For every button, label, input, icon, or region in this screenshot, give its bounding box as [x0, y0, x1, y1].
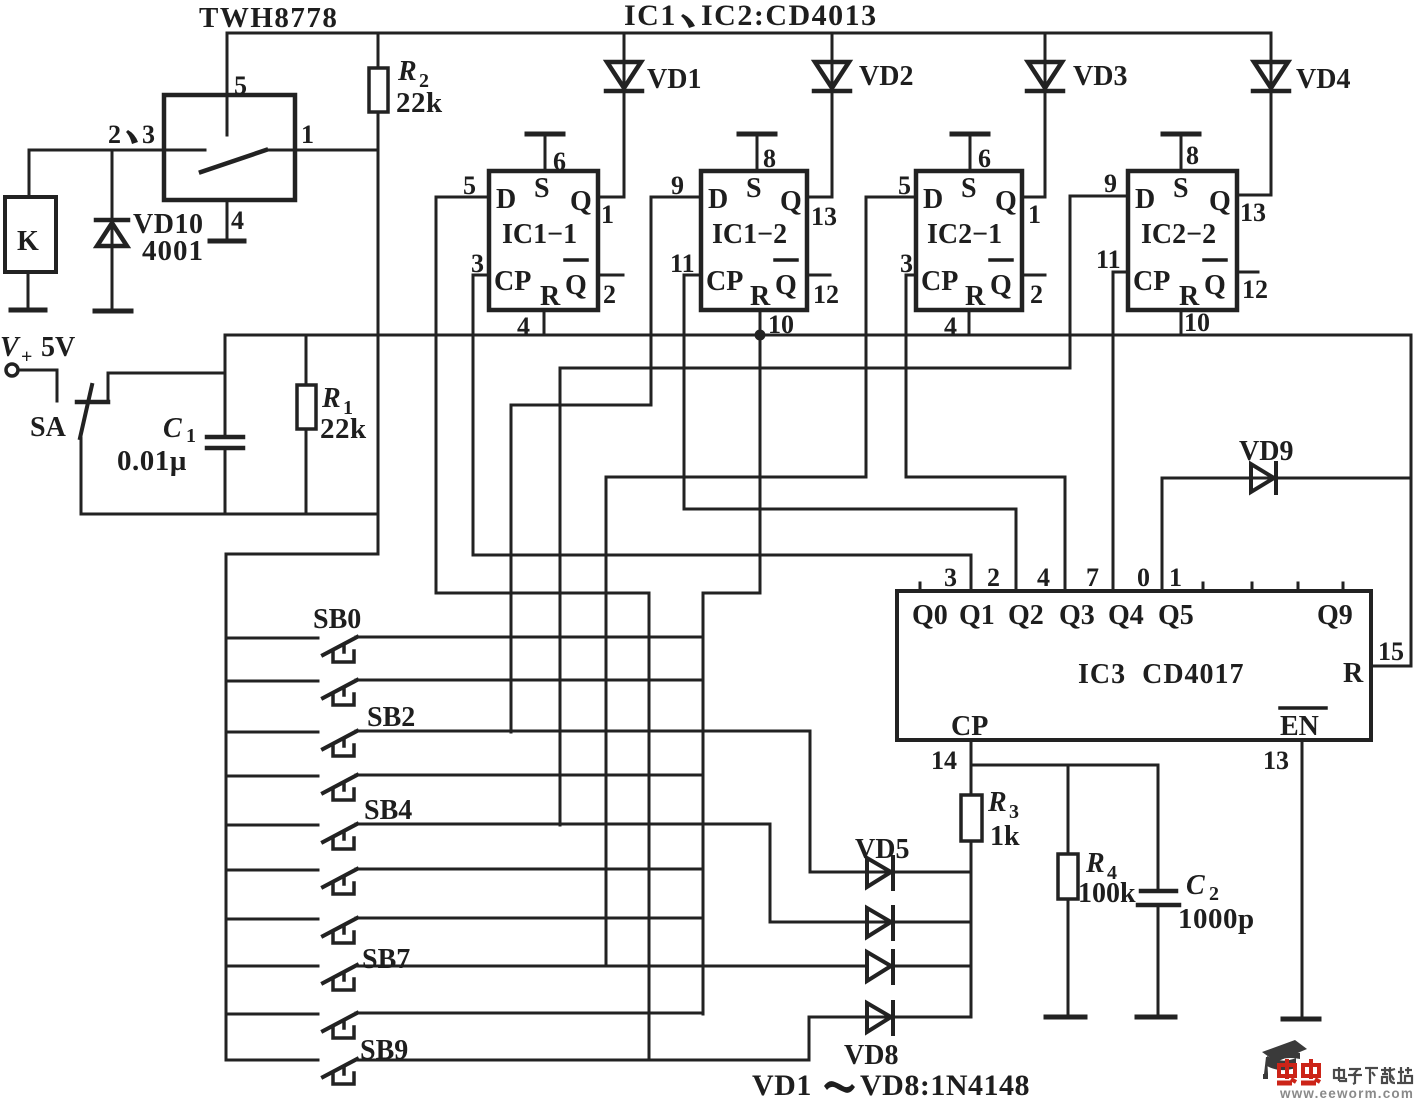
svg-text:Q2: Q2	[1008, 600, 1044, 631]
svg-text:IC1−2: IC1−2	[712, 219, 787, 250]
svg-text:4001: 4001	[142, 235, 204, 267]
svg-text:13: 13	[1240, 198, 1266, 227]
IC1-2 texts	[706, 173, 802, 312]
svg-text:C: C	[163, 413, 182, 444]
wire IC2-1 D net	[606, 197, 916, 966]
wire CP node to R4 C2	[971, 764, 1158, 767]
svg-text:VD8: VD8	[844, 1040, 898, 1071]
svg-text:14: 14	[931, 746, 957, 775]
svg-text:4: 4	[231, 206, 244, 235]
IC U1 TWH8778 box	[164, 95, 295, 200]
IC2-1 texts	[921, 173, 1017, 312]
ground under VD10	[95, 309, 131, 314]
svg-text:7: 7	[1086, 563, 1099, 592]
svg-text:100k: 100k	[1078, 878, 1136, 909]
switch SA contact	[77, 400, 108, 405]
capacitor C2	[1138, 765, 1179, 1016]
IC2-2 texts	[1133, 173, 1231, 312]
flip-flop IC2-2 box	[1128, 171, 1237, 310]
IC1-2 Qbar stub	[807, 274, 830, 277]
svg-text:8: 8	[1186, 141, 1199, 170]
pushbutton SB6	[226, 918, 703, 943]
svg-text:5: 5	[234, 71, 247, 100]
svg-text:IC3 CD4017: IC3 CD4017	[1078, 659, 1245, 690]
svg-text:1000p: 1000p	[1178, 903, 1255, 935]
svg-text:1: 1	[1028, 200, 1041, 229]
svg-text:VD9: VD9	[1239, 436, 1293, 467]
svg-text:10: 10	[1184, 308, 1210, 337]
wire IC2-2 D net	[560, 196, 1128, 825]
svg-text:Q: Q	[780, 186, 802, 217]
svg-text:D: D	[708, 184, 728, 215]
svg-text:22k: 22k	[396, 87, 443, 119]
pushbutton SB2	[226, 731, 810, 756]
IC3 EN label	[1280, 708, 1326, 742]
svg-text:TWH8778: TWH8778	[199, 2, 338, 34]
IC2-2 R pin stub	[1180, 310, 1183, 335]
svg-text:9: 9	[1104, 169, 1117, 198]
svg-text:11: 11	[1096, 245, 1121, 274]
ground under C2	[1137, 1015, 1175, 1020]
wire IC2-1 Q to VD3	[1022, 33, 1045, 197]
wire pins 2,3 input	[29, 149, 205, 152]
svg-text:IC1−1: IC1−1	[502, 219, 577, 250]
ground under K	[11, 308, 45, 313]
wire IC2-2 Q to VD4	[1237, 33, 1271, 195]
label V+ 5V	[0, 332, 75, 368]
wire V rail to button bus	[226, 554, 378, 1060]
svg-text:VD1: VD1	[647, 64, 701, 95]
wire pin 1 output	[266, 149, 378, 152]
svg-text:S: S	[746, 173, 762, 204]
diode VD8	[867, 1002, 893, 1034]
svg-text:S: S	[1173, 173, 1189, 204]
svg-text:Q: Q	[1209, 186, 1231, 217]
diode VD6	[867, 907, 893, 939]
svg-text:VD1: VD1	[752, 1069, 812, 1099]
svg-text:2: 2	[1209, 883, 1219, 905]
svg-text:VD2: VD2	[859, 61, 913, 92]
svg-text:R: R	[397, 56, 417, 87]
svg-text:Q: Q	[1204, 270, 1226, 301]
svg-text:2: 2	[108, 120, 121, 149]
diode VD1	[606, 62, 642, 91]
svg-text:3: 3	[1009, 801, 1019, 823]
ground pin 4	[210, 239, 244, 244]
IC3 pin number labels	[944, 563, 1182, 592]
svg-text:1: 1	[601, 200, 614, 229]
svg-text:R: R	[750, 281, 771, 312]
wire IC1-1 CP net to Q1	[473, 275, 971, 591]
svg-text:SB0: SB0	[313, 604, 361, 635]
resistor R3	[961, 795, 982, 841]
flip-flop IC1-2 box	[701, 171, 807, 310]
svg-text:CP: CP	[494, 266, 531, 297]
svg-text:S: S	[534, 173, 550, 204]
ground under EN	[1283, 1017, 1319, 1022]
svg-text:SA: SA	[30, 412, 67, 443]
svg-text:+: +	[21, 346, 32, 368]
svg-text:CP: CP	[1133, 266, 1170, 297]
wire IC2-2 CP net to Q4	[1113, 272, 1128, 591]
IC1-2 R pin stub	[759, 310, 762, 335]
wire VD cathode bus	[970, 841, 973, 1017]
IC2-1 Qbar stub	[1022, 274, 1045, 277]
ground under R4	[1046, 1015, 1085, 1020]
IC2-1 S pin	[952, 134, 988, 171]
watermark chongchong red text	[1277, 1059, 1320, 1083]
pushbutton SB7	[226, 965, 866, 990]
IC2-2 Qbar stub	[1237, 271, 1258, 274]
svg-text:Q: Q	[570, 186, 592, 217]
wire VD7 to bus	[893, 965, 971, 968]
wire IC1-2 CP net to Q2	[684, 275, 1016, 591]
wire IC1-2 D net	[511, 197, 701, 732]
svg-text:4: 4	[517, 312, 530, 341]
svg-text:3: 3	[142, 120, 155, 149]
IC3 top tick pins	[920, 583, 1343, 591]
svg-text:Q: Q	[995, 186, 1017, 217]
pushbutton SB3	[226, 775, 703, 800]
diode VD9 net	[1162, 478, 1411, 591]
svg-text:IC2−1: IC2−1	[927, 219, 1002, 250]
diode VD9	[1251, 463, 1276, 493]
switch blade inside TWH8778	[201, 150, 266, 172]
svg-text:SB9: SB9	[360, 1035, 408, 1066]
label VD1-VD8 1N4148	[752, 1069, 1030, 1099]
wire IC2-1 CP net to Q3	[906, 275, 1065, 591]
pushbutton SB1	[226, 680, 703, 705]
IC2-2 S pin	[1163, 134, 1199, 171]
svg-text:R: R	[1085, 848, 1105, 879]
IC1-2 S pin	[739, 134, 775, 171]
svg-text:S: S	[961, 173, 977, 204]
pushbutton SB8	[226, 1013, 701, 1038]
diode VD3	[1027, 62, 1063, 91]
svg-text:1: 1	[301, 120, 314, 149]
svg-text:R: R	[987, 787, 1007, 818]
IC3 output labels	[912, 600, 1353, 631]
wire SA to rail	[108, 373, 225, 402]
svg-text:Q1: Q1	[959, 600, 995, 631]
IC3 CD4017 box	[897, 591, 1371, 740]
svg-text:D: D	[923, 184, 943, 215]
wire reset bus	[225, 335, 1411, 666]
pushbutton SB0	[226, 637, 703, 662]
svg-text:www.eeworm.com: www.eeworm.com	[1279, 1086, 1414, 1099]
wire IC1-2 Q to VD2	[807, 33, 832, 197]
wire pin 4	[226, 200, 229, 240]
diode VD2	[814, 62, 850, 91]
svg-text:R: R	[965, 281, 986, 312]
svg-text:6: 6	[978, 144, 991, 173]
svg-text:8: 8	[763, 144, 776, 173]
wire SB2 to VD5	[810, 731, 971, 872]
label 2、3	[108, 120, 155, 149]
svg-text:VD3: VD3	[1073, 61, 1127, 92]
svg-text:4: 4	[1037, 563, 1050, 592]
svg-text:SB4: SB4	[364, 795, 412, 826]
svg-text:IC2−2: IC2−2	[1141, 219, 1216, 250]
wire IC1-1 D net	[436, 197, 649, 1060]
svg-text:10: 10	[768, 310, 794, 339]
wire K to ground	[27, 272, 30, 309]
svg-text:R: R	[1179, 281, 1200, 312]
resistor R4	[1058, 765, 1078, 1016]
wire top supply bus	[227, 32, 1271, 35]
diode VD10 wire	[111, 150, 114, 310]
wire IC1-1 Q to VD1	[598, 33, 624, 197]
svg-text:R: R	[540, 281, 561, 312]
node junction dot	[755, 330, 766, 341]
svg-text:4: 4	[944, 312, 957, 341]
svg-text:EN: EN	[1280, 711, 1319, 742]
svg-text:R: R	[321, 383, 341, 414]
svg-text:1: 1	[186, 425, 196, 447]
IC1-1 Qbar stub	[598, 274, 623, 277]
IC2-1 R pin stub	[968, 310, 971, 335]
svg-text:0.01µ: 0.01µ	[117, 445, 187, 477]
pushbutton SB9	[226, 1059, 809, 1084]
svg-text:Q: Q	[775, 270, 797, 301]
svg-text:13: 13	[1263, 746, 1289, 775]
svg-text:CP: CP	[706, 266, 743, 297]
svg-text:Q9: Q9	[1317, 600, 1353, 631]
watermark logo cap	[1262, 1040, 1307, 1079]
wire SB4 to VD6	[770, 824, 971, 922]
capacitor C1	[207, 335, 243, 514]
label IC1,IC2:CD4013	[624, 0, 878, 32]
wire K drop	[28, 150, 31, 197]
resistor R2	[369, 33, 388, 554]
wire CP pin 14	[970, 740, 973, 795]
svg-text:IC2:CD4013: IC2:CD4013	[701, 0, 878, 32]
svg-text:2: 2	[1030, 280, 1043, 309]
svg-text:Q5: Q5	[1158, 600, 1194, 631]
diode VD5	[867, 857, 893, 889]
svg-text:SB2: SB2	[367, 702, 415, 733]
svg-text:K: K	[17, 226, 39, 257]
svg-text:0: 0	[1137, 563, 1150, 592]
svg-text:1: 1	[1169, 563, 1182, 592]
svg-text:12: 12	[813, 280, 839, 309]
terminal V+	[6, 364, 18, 376]
svg-text:SB7: SB7	[362, 944, 410, 975]
watermark site name	[1334, 1067, 1412, 1084]
svg-text:Q0: Q0	[912, 600, 948, 631]
svg-text:Q: Q	[990, 270, 1012, 301]
svg-text:12: 12	[1242, 275, 1268, 304]
wire reset to buttons	[703, 335, 760, 1014]
svg-text:6: 6	[553, 147, 566, 176]
svg-text:C: C	[1186, 870, 1205, 901]
svg-text:5V: 5V	[41, 332, 75, 363]
flip-flop IC1-1 box	[489, 171, 598, 310]
svg-text:VD4: VD4	[1296, 64, 1350, 95]
svg-text:Q4: Q4	[1108, 600, 1144, 631]
svg-text:2: 2	[603, 280, 616, 309]
pushbutton SB4	[226, 824, 770, 849]
switch SA blade	[80, 385, 92, 438]
svg-text:CP: CP	[921, 266, 958, 297]
resistor R1	[297, 335, 316, 514]
wire V+ to SA	[18, 370, 57, 401]
svg-text:22k: 22k	[320, 413, 367, 445]
svg-text:CP: CP	[951, 711, 988, 742]
svg-text:1k: 1k	[990, 821, 1020, 852]
relay K box	[5, 197, 56, 272]
diode VD7	[867, 951, 893, 983]
svg-text:V: V	[0, 332, 21, 363]
pushbutton SB5	[226, 869, 703, 894]
IC1-1 texts	[494, 173, 592, 312]
IC1-1 S pin	[527, 134, 563, 171]
svg-text:Q3: Q3	[1059, 600, 1095, 631]
svg-text:VD8:1N4148: VD8:1N4148	[860, 1069, 1030, 1099]
svg-text:13: 13	[811, 202, 837, 231]
IC1-1 R pin stub	[543, 310, 546, 335]
wire EN pin 13	[1301, 740, 1304, 1018]
flip-flop IC2-1 box	[916, 171, 1022, 310]
diode VD4	[1253, 62, 1289, 91]
wire SB9 to VD8	[809, 1017, 971, 1060]
svg-text:15: 15	[1378, 637, 1404, 666]
svg-text:Q: Q	[565, 270, 587, 301]
pin 5 wire	[226, 33, 229, 135]
svg-text:R: R	[1343, 658, 1364, 689]
svg-text:IC1: IC1	[624, 0, 677, 32]
svg-text:3: 3	[944, 563, 957, 592]
svg-text:VD5: VD5	[855, 834, 909, 865]
wire SA bottom	[81, 438, 378, 514]
diode VD10 symbol	[96, 220, 128, 246]
svg-text:2: 2	[987, 563, 1000, 592]
svg-text:D: D	[496, 184, 516, 215]
svg-text:D: D	[1135, 184, 1155, 215]
